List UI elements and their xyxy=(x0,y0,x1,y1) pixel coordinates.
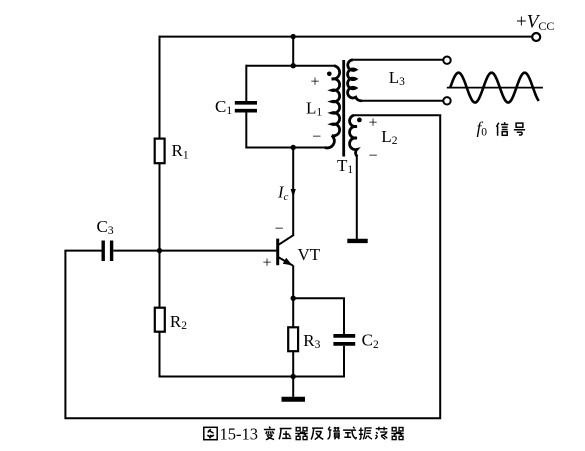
wire tank top xyxy=(246,65,334,67)
transistor Q VT base bar xyxy=(276,239,279,266)
svg-text:R2: R2 xyxy=(170,312,187,332)
wire C2 to bottom rail xyxy=(343,346,345,378)
wire feedback loop left bottom right xyxy=(65,115,440,418)
svg-text:+VCC: +VCC xyxy=(516,12,554,33)
caption title xyxy=(264,427,404,440)
wire rail to tank xyxy=(292,37,294,66)
svg-text:−: − xyxy=(368,148,377,165)
terminal +Vcc xyxy=(532,33,540,41)
inductor L3 winding xyxy=(348,60,362,101)
svg-text:Ic: Ic xyxy=(277,183,289,204)
wire base lead xyxy=(113,250,276,252)
terminal L3 bottom xyxy=(443,97,450,104)
wire R2 to bottom rail xyxy=(160,332,345,377)
svg-text:+: + xyxy=(310,73,319,90)
capacitor C1 xyxy=(235,101,257,105)
svg-text:+: + xyxy=(368,115,377,132)
svg-text:R3: R3 xyxy=(303,331,320,351)
wire emitter to C2 xyxy=(293,298,344,334)
node L2 polarity dot xyxy=(357,118,362,123)
transistor VT collector diagonal xyxy=(279,235,294,245)
wire R1 to base node xyxy=(159,163,161,251)
resistor R1 xyxy=(155,139,165,164)
capacitor C3 left lead xyxy=(64,250,101,252)
sine axis xyxy=(447,87,543,89)
arrow Ic xyxy=(291,189,296,197)
node tank top junction xyxy=(291,63,296,68)
inductor L2 winding xyxy=(350,115,358,156)
inductor L1 winding xyxy=(325,66,340,148)
wire emitter to R3 xyxy=(292,298,294,328)
wire to ground 2 xyxy=(292,377,294,397)
resistor R3 xyxy=(288,327,298,351)
svg-text:L2: L2 xyxy=(381,127,397,147)
wire base node to R2 xyxy=(159,251,161,309)
wire L2 top lead xyxy=(354,114,441,116)
svg-text:L1: L1 xyxy=(306,98,322,118)
wire collector xyxy=(292,148,294,236)
svg-text:T1: T1 xyxy=(337,156,353,176)
transistor VT emitter diagonal xyxy=(279,257,293,265)
svg-text:15-13: 15-13 xyxy=(220,424,259,443)
node L1 polarity dot xyxy=(327,72,332,77)
svg-text:C2: C2 xyxy=(362,331,379,351)
capacitor C3 xyxy=(101,241,104,262)
svg-text:−: − xyxy=(312,129,321,146)
node bottom junction xyxy=(291,374,296,379)
sine wave f0 xyxy=(450,73,539,103)
capacitor C1 bottom lead xyxy=(245,113,247,149)
wire L3 top lead xyxy=(353,59,444,61)
resistor R2 xyxy=(155,308,165,332)
capacitor C2 xyxy=(333,334,355,338)
svg-text:R1: R1 xyxy=(172,141,189,161)
svg-text:C3: C3 xyxy=(97,217,114,237)
svg-text:−: − xyxy=(274,220,283,237)
wire L2 to ground xyxy=(356,155,358,239)
svg-text:+: + xyxy=(262,254,271,271)
capacitor C1 top lead xyxy=(245,65,247,101)
label f0 xinhao text xyxy=(496,122,525,135)
svg-text:f0: f0 xyxy=(477,118,488,138)
wire L3 bottom lead xyxy=(362,100,443,102)
transistor VT emitter arrow xyxy=(283,258,293,266)
caption figure number xyxy=(204,424,258,443)
node rail junction xyxy=(291,34,296,39)
terminal L3 top xyxy=(443,57,450,64)
node emitter junction xyxy=(291,296,296,301)
node tank bottom junction xyxy=(291,145,296,150)
svg-text:VT: VT xyxy=(298,245,321,264)
wire tank bottom xyxy=(246,147,326,149)
wire emitter xyxy=(292,265,294,298)
svg-text:L3: L3 xyxy=(389,68,405,88)
node base junction xyxy=(157,248,162,253)
svg-text:C1: C1 xyxy=(215,97,232,117)
wire R3 to bottom node xyxy=(292,351,294,377)
ground under L2 xyxy=(347,239,367,243)
wire top supply rail xyxy=(160,36,533,38)
transformer T1 core xyxy=(342,60,345,157)
wire left branch upper xyxy=(159,36,161,140)
ground under emitter network xyxy=(282,397,306,402)
